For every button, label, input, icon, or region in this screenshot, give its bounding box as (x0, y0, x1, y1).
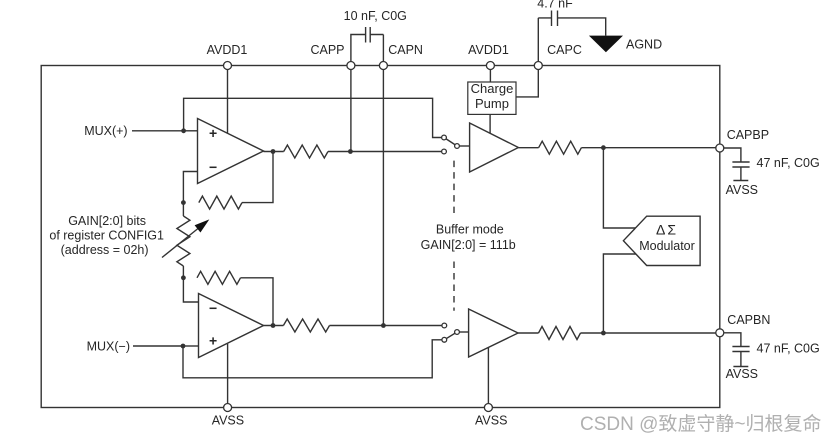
svg-text:CAPP: CAPP (310, 43, 344, 57)
resistor R4 A2 feedback (197, 271, 241, 284)
resistor R6 buffer B1 output (539, 141, 582, 154)
junction MUX(+) node (181, 128, 186, 133)
svg-text:+: + (209, 333, 217, 349)
capacitor 47nF C0G bottom external wiring (720, 333, 750, 367)
wire switch pole to buffer B2 (457, 331, 469, 333)
junction A2 output node (271, 323, 276, 328)
terminal CAPBP (716, 144, 724, 152)
op-amp A1 (198, 119, 264, 184)
wire buffer B1 output (518, 147, 538, 149)
capacitor 4.7nF wiring (538, 11, 605, 36)
terminal CAPBN (716, 329, 724, 337)
terminal CAPN (379, 62, 387, 70)
resistor R5 A2 output (283, 319, 329, 332)
switch S1 pole contact (455, 144, 460, 149)
switch S2 bottom throw contact (442, 337, 447, 342)
wire op-amp A1 inverting input (183, 172, 197, 203)
svg-text:CAPN: CAPN (388, 43, 423, 57)
junction MUX(-) node (181, 344, 186, 349)
svg-text:MUX(+): MUX(+) (84, 124, 127, 138)
wire A2 feedback right leg (241, 278, 274, 326)
switch S2 pole contact (455, 330, 460, 335)
delta-sigma modulator block (623, 216, 700, 265)
svg-text:Modulator: Modulator (639, 239, 695, 253)
gain arrow head (195, 221, 208, 232)
wire charge pump to buffer B1 (489, 114, 491, 133)
wire bypass path negative (node to switch bottom throw) (183, 340, 444, 378)
resistor R1 A1 output (284, 145, 328, 158)
wire op-amp A2 output (264, 325, 284, 327)
dashed buffer mode boundary (453, 161, 455, 311)
svg-text:AVSS: AVSS (212, 414, 244, 428)
wire MUX(+) input (132, 130, 184, 132)
svg-text:Buffer mode: Buffer mode (436, 223, 504, 237)
wire bypass path positive (node to switch top throw) (184, 98, 444, 137)
capacitor 10nF wiring (351, 27, 384, 66)
capacitor 47nF C0G top external wiring (720, 148, 750, 181)
terminal CAPC (534, 62, 542, 70)
wire switch pole to buffer B1 (457, 145, 470, 147)
wire to modulator top input (603, 148, 635, 228)
svg-text:AVSS: AVSS (475, 414, 507, 428)
terminal AVSS left (224, 404, 232, 412)
wire MUX(-) input (133, 345, 183, 347)
svg-text:−: − (209, 300, 217, 316)
wire op-amp A1 output (264, 151, 284, 153)
wire AVDD1 right to charge pump (489, 66, 491, 83)
wire CAPN drop (382, 35, 384, 326)
op-amp A2 (199, 294, 264, 358)
resistor R2 A1 feedback (199, 196, 242, 209)
resistor R3 programmable gain (177, 216, 190, 266)
junction CAPBN row node (601, 331, 606, 336)
buffer B1 (470, 123, 519, 172)
buffer B2 (469, 309, 518, 357)
wire A2 output row to switch (330, 325, 445, 327)
wire B2 ground leg to AVSS (487, 347, 489, 407)
svg-text:47 nF, C0G: 47 nF, C0G (757, 156, 820, 170)
junction A1 output node (271, 149, 276, 154)
device outline box (41, 66, 720, 408)
svg-text:AGND: AGND (626, 38, 662, 52)
svg-text:MUX(−): MUX(−) (87, 339, 130, 353)
wire gain resistor top lead (182, 203, 184, 216)
svg-text:AVSS: AVSS (726, 367, 758, 381)
svg-text:GAIN[2:0] bits: GAIN[2:0] bits (68, 214, 146, 228)
switch S1 bottom throw contact (442, 149, 447, 154)
terminal AVSS right (484, 404, 492, 412)
svg-text:+: + (209, 125, 217, 141)
wire charge pump to CAPC (516, 18, 538, 97)
junction A1 feedback node (181, 200, 186, 205)
svg-text:10 nF, C0G: 10 nF, C0G (344, 9, 407, 23)
ground symbol AGND (589, 36, 623, 53)
wire B2 row to CAPBN (581, 332, 720, 334)
svg-text:AVDD1: AVDD1 (207, 43, 248, 57)
terminal CAPP (347, 62, 355, 70)
svg-text:47 nF, C0G: 47 nF, C0G (757, 342, 820, 356)
wire B1 row to CAPBP (581, 147, 719, 149)
wire CAPP drop (350, 66, 352, 152)
gain adjustment arrow line (162, 229, 198, 258)
wire A1 feedback right leg (242, 152, 273, 203)
svg-text:AVDD1: AVDD1 (468, 43, 509, 57)
svg-text:CAPBN: CAPBN (727, 313, 770, 327)
wire op-amp A2 noninverting input (183, 345, 199, 347)
wire gain resistor bottom lead (182, 266, 184, 278)
svg-text:of register CONFIG1: of register CONFIG1 (49, 229, 164, 243)
svg-text:CAPC: CAPC (547, 43, 582, 57)
svg-text:AVSS: AVSS (726, 183, 758, 197)
wire to modulator bottom input (603, 254, 636, 333)
junction A2 feedback node (181, 275, 186, 280)
junction CAPP node (348, 149, 353, 154)
wire A1 output row to switch (328, 151, 444, 153)
charge pump box (468, 82, 516, 114)
svg-text:GAIN[2:0] = 111b: GAIN[2:0] = 111b (421, 238, 516, 252)
svg-text:CSDN @致虚守静~归根复命: CSDN @致虚守静~归根复命 (580, 413, 822, 435)
svg-text:CAPBP: CAPBP (727, 128, 769, 142)
wire buffer B2 output (518, 332, 538, 334)
terminal AVDD1 left (224, 62, 232, 70)
svg-text:Pump: Pump (475, 96, 509, 111)
switch S1 top throw contact (442, 135, 447, 140)
resistor R7 buffer B2 output (539, 327, 581, 340)
switch S2 top throw contact (442, 323, 447, 328)
svg-text:ΔΣ: ΔΣ (656, 222, 678, 238)
svg-text:4.7 nF: 4.7 nF (537, 0, 573, 11)
junction CAPN node (381, 323, 386, 328)
wire op-amp A1 noninverting input (184, 130, 198, 132)
wire A2 ground leg to AVSS (227, 344, 229, 408)
wire op-amp A2 inverting input (183, 278, 198, 302)
svg-text:Charge: Charge (471, 81, 514, 96)
svg-text:(address = 02h): (address = 02h) (61, 243, 149, 257)
wire AVDD1 left supply drop (227, 66, 229, 134)
junction CAPBP row node (601, 145, 606, 150)
svg-text:−: − (209, 159, 217, 175)
wire switch blade upper (444, 138, 457, 147)
terminal AVDD1 right (486, 62, 494, 70)
wire switch blade lower (444, 332, 457, 340)
